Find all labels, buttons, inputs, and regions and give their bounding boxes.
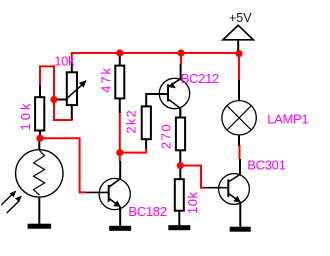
resistor R5 270 [158,108,185,179]
power symbol +5V [223,11,253,53]
svg-text:+5V: +5V [229,11,252,25]
svg-text:BC182: BC182 [128,204,166,219]
potentiometer VR1 10k [54,53,87,120]
node 2 junction LDR/R1 [36,135,43,142]
node D junction 270/10k/BC301 [177,162,184,169]
svg-text:2k2: 2k2 [124,109,139,134]
node E junction +5V/lamp [235,50,242,57]
resistor R6 10k (bottom) [175,179,200,225]
node 1 junction pot wiper [50,96,57,103]
svg-text:10k: 10k [54,53,75,68]
wire BC212 emitter to rail [180,53,182,64]
wire left branch from R2 top up-over-down to pot wiper node [40,66,54,99]
svg-text:BC212: BC212 [181,71,219,86]
wire lamp bottom to BC301 collector [239,145,241,159]
resistor R3 47k [98,56,124,113]
wire top +5V rail [72,53,239,60]
wire wiper node down to pot bottom [54,100,73,121]
svg-text:47k: 47k [98,66,113,93]
node B junction BC212/rail [177,49,184,56]
lamp LAMP1 [222,80,309,146]
wire node D to BC301 base [180,166,204,188]
wire LDR top to BC182 base [40,138,86,192]
transistor Q2 BC212 (PNP) [159,64,219,118]
svg-text:LAMP1: LAMP1 [267,112,308,127]
svg-text:10k: 10k [185,192,200,214]
wire node C to 2k2 bottom [120,148,146,153]
ground (BC182 emitter) [109,226,131,231]
node C junction 47k/2k2/BC182 [116,149,123,156]
transistor Q3 BC301 (NPN) [204,158,286,227]
ground (BC301 emitter) [230,227,251,232]
transistor Q1 BC182 (NPN) [86,161,167,226]
resistor R4 2k2 [124,94,167,149]
wire +5V node to lamp [238,53,240,81]
svg-text:10k: 10k [18,101,33,131]
node A junction 47k/rail [116,49,123,56]
ground (10k bottom) [168,225,190,230]
svg-text:BC301: BC301 [247,158,285,173]
wire 47k bottom down to node C [119,112,121,162]
ground (LDR) [28,224,51,229]
svg-text:270: 270 [158,123,173,149]
LDR1 photoresistor [1,138,63,224]
resistor R1 10k (left) [18,85,44,138]
